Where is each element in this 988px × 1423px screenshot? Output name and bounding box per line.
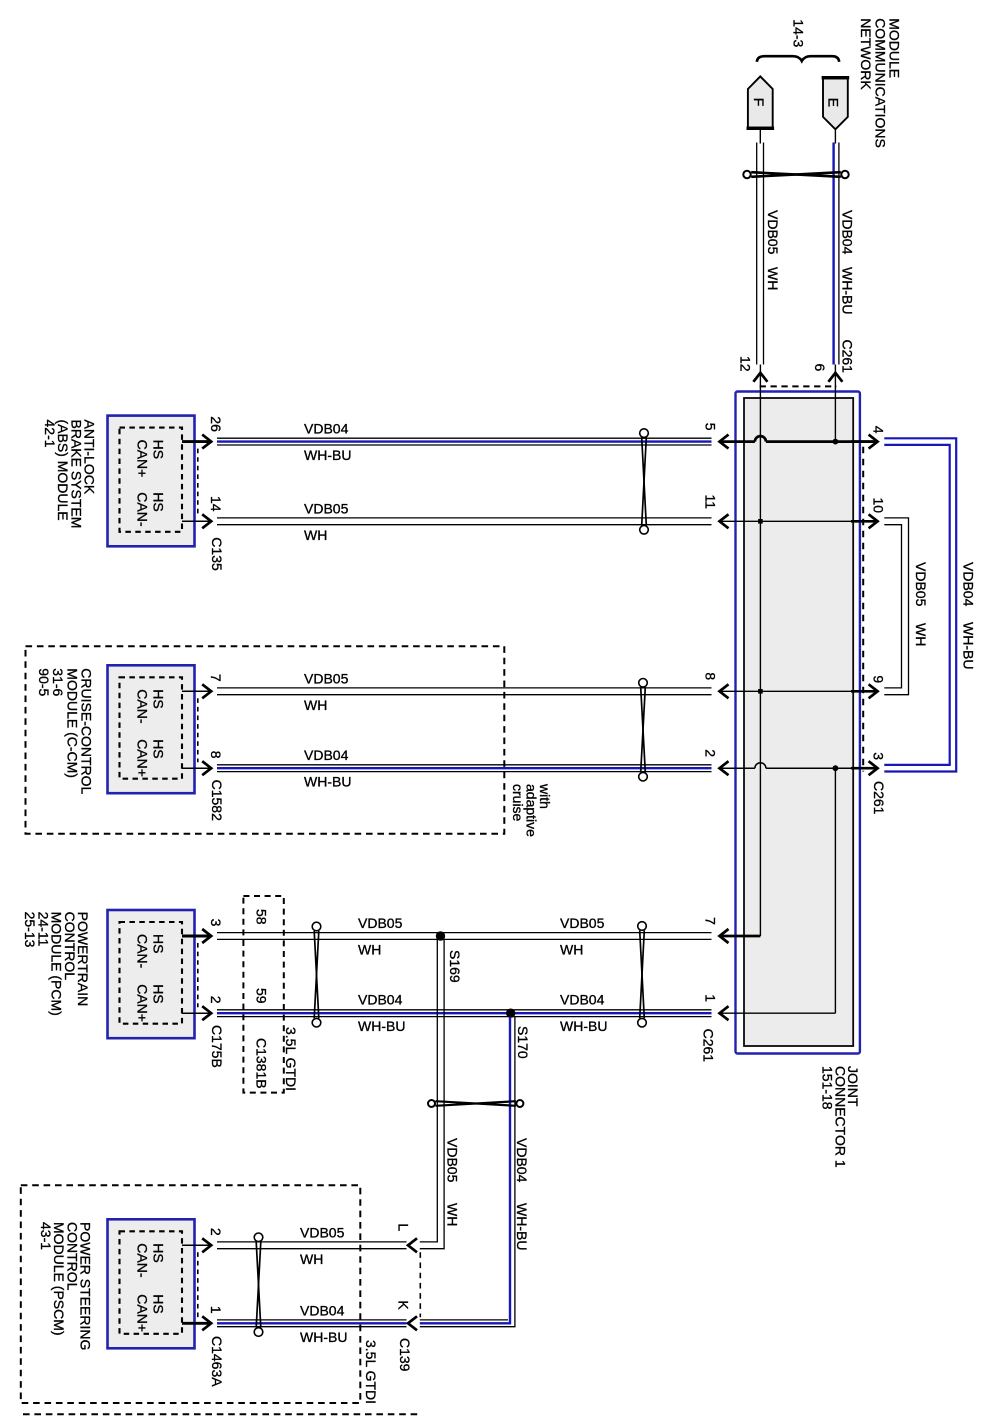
svg-text:VDB04: VDB04 <box>304 747 349 763</box>
svg-text:VDB05: VDB05 <box>765 210 781 255</box>
wire label VDB05 / WH row E right <box>560 915 605 958</box>
C139 dashed boundary <box>419 1252 421 1317</box>
svg-text:CAN+: CAN+ <box>134 739 150 777</box>
pin stub 26 <box>182 440 210 443</box>
svg-text:WH-BU: WH-BU <box>840 267 856 314</box>
wire label VDB04 / WH-BU row F left <box>358 992 405 1035</box>
svg-text:E: E <box>826 98 842 107</box>
svg-text:3: 3 <box>871 752 887 760</box>
internal row pin 8 to pin 9 <box>720 690 878 692</box>
svg-text:151-18: 151-18 <box>820 1066 836 1110</box>
C261 right pin 10 stub <box>851 520 878 523</box>
connector face dashed line C135 <box>197 449 199 516</box>
svg-text:VDB05: VDB05 <box>300 1224 345 1240</box>
wire label VDB05 WH vertical drop <box>444 1138 460 1226</box>
svg-text:VDB05: VDB05 <box>304 500 349 516</box>
svg-text:HS: HS <box>151 1294 167 1313</box>
pin stub 14 <box>182 520 210 522</box>
wire VDB04 WH-BU ABS pin 26 to C261 pin 5 <box>217 437 712 439</box>
junction row11/bus <box>758 519 763 524</box>
wire label VDB04 WH-BU loop <box>961 562 977 669</box>
svg-text:VDB04: VDB04 <box>961 562 977 607</box>
svg-text:26: 26 <box>208 416 224 432</box>
svg-text:VDB05: VDB05 <box>560 915 605 931</box>
in-line connector C1381B dashed box <box>243 896 283 1093</box>
svg-text:VDB05: VDB05 <box>304 670 349 686</box>
svg-text:3.5L GTDI: 3.5L GTDI <box>283 1027 299 1091</box>
pin stub 2 <box>182 1244 210 1246</box>
svg-text:11: 11 <box>703 495 719 510</box>
svg-text:S170: S170 <box>515 1026 531 1059</box>
svg-text:HS: HS <box>151 492 167 511</box>
in-line connector C139 pin K arrow <box>408 1316 417 1330</box>
svg-text:VDB05: VDB05 <box>444 1138 460 1183</box>
internal row pin 1 <box>720 1012 836 1014</box>
wire label VDB05 / WH row E left <box>358 915 403 958</box>
internal row pin 11 to pin 10 <box>720 520 878 522</box>
svg-text:5: 5 <box>703 423 719 431</box>
svg-text:WH: WH <box>765 267 781 290</box>
wire VDB05 WH ABS pin 14 to C261 pin 11 <box>217 517 712 519</box>
svg-text:C261: C261 <box>840 340 856 374</box>
svg-text:59: 59 <box>254 988 270 1004</box>
svg-text:WH-BU: WH-BU <box>300 1329 347 1345</box>
svg-text:CAN-: CAN- <box>134 492 150 527</box>
wire label VDB05 WH loop <box>913 562 929 646</box>
wire VDB05 WH PCM pin 3 to C261 pin 7 <box>217 932 712 934</box>
svg-text:L: L <box>396 1223 412 1231</box>
wire VDB04 WH-BU C-CM pin 8 to C261 pin 2 <box>217 764 712 766</box>
junction row3/branch <box>833 765 839 771</box>
svg-text:WH-BU: WH-BU <box>560 1018 607 1034</box>
svg-text:F: F <box>751 98 767 107</box>
svg-text:VDB05: VDB05 <box>358 915 403 931</box>
wire VDB04 WH-BU PCM pin 2 to C261 pin 1 <box>217 1009 712 1011</box>
junction row8/bus <box>758 689 763 694</box>
svg-text:2: 2 <box>208 996 224 1004</box>
svg-text:10: 10 <box>871 498 887 514</box>
svg-text:C175B: C175B <box>209 1025 225 1068</box>
svg-text:WH: WH <box>358 942 381 958</box>
svg-text:VDB04: VDB04 <box>840 210 856 255</box>
twisted pair symbol rows A/B <box>640 429 649 534</box>
wire label VDB05 / WH row C <box>304 670 349 713</box>
svg-text:HS: HS <box>151 934 167 953</box>
C261 left pin 7 arrow <box>720 929 729 943</box>
svg-text:7: 7 <box>208 674 224 682</box>
svg-text:9: 9 <box>871 675 887 683</box>
pin stub 2 <box>182 1012 210 1014</box>
svg-text:cruise: cruise <box>510 784 526 822</box>
svg-text:42-1: 42-1 <box>42 420 58 448</box>
C261 left pin 2 arrow <box>720 761 729 775</box>
svg-text:6: 6 <box>812 364 828 372</box>
wire VDB05 WH C-CM pin 7 to C261 pin 8 <box>217 687 712 689</box>
C261 right pin 9 stub <box>851 690 878 693</box>
svg-text:WH: WH <box>300 1251 323 1267</box>
pin stub 1 <box>182 1322 210 1325</box>
C261 left pin 5 arrow <box>720 435 729 449</box>
svg-text:WH-BU: WH-BU <box>358 1018 405 1034</box>
off-page connector F <box>747 76 775 128</box>
internal row pin 5 to pin 4 (thick) with hop <box>720 436 878 442</box>
svg-text:WH: WH <box>913 623 929 646</box>
wire label VDB04 / WH-BU row F right <box>560 992 607 1035</box>
svg-text:2: 2 <box>208 1228 224 1236</box>
wire VDB05 WH PSCM pin 2 to C139 pin L <box>217 1241 407 1243</box>
C261 dashed boundary right (pins 4,10,9,3) <box>862 447 864 772</box>
dashed line bottom edge <box>23 1413 420 1415</box>
connector face dashed line C175B <box>197 943 199 1007</box>
svg-text:HS: HS <box>151 689 167 708</box>
dashed region with adaptive cruise <box>26 646 505 834</box>
svg-text:58: 58 <box>254 909 270 925</box>
svg-text:WH-BU: WH-BU <box>304 447 351 463</box>
pin stub 8 <box>182 767 210 769</box>
svg-text:CAN-: CAN- <box>134 689 150 724</box>
wire VDB04 WH-BU PSCM pin 1 to C139 pin K <box>217 1319 407 1321</box>
C261 right pin 3 stub <box>851 767 878 770</box>
junction pin6/row4 <box>833 439 839 445</box>
svg-text:7: 7 <box>703 917 719 925</box>
svg-text:8: 8 <box>208 751 224 759</box>
joint connector 1 body <box>736 392 860 1054</box>
wire label VDB05 / WH row G <box>300 1224 345 1267</box>
C261 left pin 11 arrow <box>720 514 729 528</box>
svg-text:C261: C261 <box>700 1029 716 1063</box>
wire VDB04 WH-BU from E to C261 pin 6 <box>834 129 839 364</box>
svg-text:CAN+: CAN+ <box>134 984 150 1022</box>
C261 right pin 4 stub <box>851 440 878 443</box>
internal bus line VDB05 vertical (pins 12-11-8-7) <box>759 365 761 937</box>
pin stub 3 <box>182 935 210 938</box>
svg-text:VDB05: VDB05 <box>913 562 929 607</box>
svg-text:43-1: 43-1 <box>38 1222 54 1250</box>
svg-text:CAN-: CAN- <box>134 934 150 969</box>
svg-text:WH: WH <box>304 527 327 543</box>
module box C175B <box>108 910 195 1038</box>
svg-text:VDB04: VDB04 <box>358 992 403 1008</box>
twisted pair symbol F/E wires <box>743 171 848 178</box>
svg-text:C1463A: C1463A <box>209 1336 225 1387</box>
svg-text:12: 12 <box>737 356 753 372</box>
wire label VDB04 / WH-BU row H <box>300 1302 347 1345</box>
svg-text:WH-BU: WH-BU <box>961 622 977 669</box>
svg-text:VDB04: VDB04 <box>304 421 349 437</box>
off-page connector E <box>822 78 850 130</box>
module box C1582 <box>108 665 195 793</box>
svg-text:CAN+: CAN+ <box>134 1294 150 1332</box>
wire label VDB04 / WH-BU row A <box>304 421 351 464</box>
twisted pair symbol rows G/H <box>254 1233 263 1336</box>
svg-text:HS: HS <box>151 739 167 758</box>
svg-text:25-13: 25-13 <box>22 912 38 948</box>
twisted pair symbol rows C/D <box>639 679 648 782</box>
svg-text:14-3: 14-3 <box>791 19 807 47</box>
svg-text:WH: WH <box>304 697 327 713</box>
wire VDB05 WH loop pin 10 to pin 9 <box>884 518 908 695</box>
dashed region 3.5L GTDI (PSCM) <box>21 1185 361 1403</box>
svg-text:VDB04: VDB04 <box>560 992 605 1008</box>
svg-text:WH: WH <box>444 1203 460 1226</box>
wire VDB04 WH-BU from S170 down to C139 pin K <box>420 1017 515 1327</box>
svg-text:S169: S169 <box>447 950 463 983</box>
svg-text:CAN+: CAN+ <box>134 440 150 478</box>
module box C135 <box>108 416 195 547</box>
splice S169 <box>436 931 445 940</box>
connector face dashed line C1582 <box>197 698 199 762</box>
svg-text:WH-BU: WH-BU <box>304 774 351 790</box>
brace over off-page connectors <box>757 56 839 62</box>
twisted pair symbol rows E/F left <box>312 922 321 1027</box>
svg-text:8: 8 <box>703 672 719 680</box>
wire label VDB05 WH vertical <box>765 210 781 290</box>
svg-text:C1381B: C1381B <box>254 1038 270 1089</box>
svg-text:90-5: 90-5 <box>36 668 52 696</box>
internal line pin 6 to row 4 <box>834 365 836 442</box>
svg-text:4: 4 <box>871 426 887 434</box>
C261 dashed boundary top (pins 12,6) <box>760 385 837 387</box>
internal row pin 7 (thick) <box>720 935 761 938</box>
svg-text:C261: C261 <box>871 781 887 815</box>
svg-text:NETWORK: NETWORK <box>858 18 874 90</box>
svg-text:WH-BU: WH-BU <box>514 1203 530 1250</box>
svg-text:VDB04: VDB04 <box>514 1138 530 1183</box>
wire label VDB04 WH-BU vertical <box>840 210 856 314</box>
internal row pin 2 to pin 3 with hop <box>720 763 878 769</box>
svg-text:2: 2 <box>703 749 719 757</box>
wire VDB05 WH from F to C261 pin 12 <box>757 128 764 364</box>
svg-text:3: 3 <box>208 919 224 927</box>
twisted pair symbol rows E/F right <box>638 922 647 1027</box>
wire label VDB04 / WH-BU row D <box>304 747 351 790</box>
C261 left pin 1 arrow <box>720 1006 729 1020</box>
svg-text:14: 14 <box>208 496 224 512</box>
connector face dashed line C1463A <box>197 1252 199 1317</box>
svg-text:3.5L GTDI: 3.5L GTDI <box>363 1340 379 1404</box>
internal line row 3 down to pin 1 row <box>834 768 836 1013</box>
svg-text:1: 1 <box>208 1306 224 1314</box>
splice S170 <box>506 1009 515 1018</box>
svg-text:K: K <box>396 1300 412 1310</box>
svg-text:C1582: C1582 <box>209 780 225 821</box>
in-line connector C139 pin L arrow <box>408 1238 417 1252</box>
C261 left pin 8 arrow <box>720 684 729 698</box>
svg-text:VDB04: VDB04 <box>300 1302 345 1318</box>
svg-text:HS: HS <box>151 440 167 459</box>
svg-text:CAN-: CAN- <box>134 1243 150 1278</box>
svg-text:HS: HS <box>151 1243 167 1262</box>
pin 6 arrow <box>828 373 842 382</box>
pin 12 arrow <box>753 373 767 382</box>
wire label VDB04 WH-BU vertical drop <box>514 1138 530 1250</box>
wire label VDB05 / WH row B <box>304 500 349 543</box>
svg-text:WH: WH <box>560 942 583 958</box>
twisted pair symbol vertical drops <box>428 1100 523 1107</box>
svg-text:HS: HS <box>151 984 167 1003</box>
pin stub 7 <box>182 690 210 692</box>
module box C1463A <box>108 1219 195 1348</box>
wire VDB04 WH-BU loop pin 4 to pin 3 <box>884 438 956 771</box>
svg-text:1: 1 <box>703 994 719 1002</box>
svg-text:C139: C139 <box>397 1338 413 1372</box>
wire VDB05 WH from S169 down to C139 pin L <box>420 940 444 1249</box>
svg-text:C135: C135 <box>209 537 225 571</box>
